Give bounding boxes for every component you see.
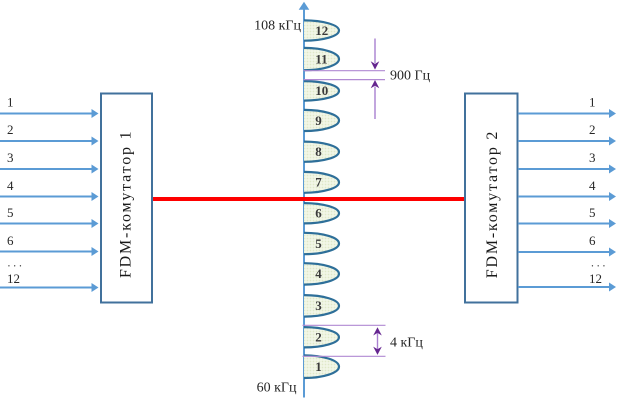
- svg-text:11: 11: [315, 51, 327, 66]
- svg-text:2: 2: [7, 122, 14, 137]
- svg-text:. . .: . . .: [591, 258, 606, 270]
- output arrow 3: [518, 165, 616, 174]
- channel spectrum 9: [304, 110, 339, 131]
- channel spectrum 2: [304, 327, 339, 347]
- FDM commutator 2 box: [465, 94, 518, 303]
- input arrow 4: [0, 192, 99, 201]
- svg-text:4 кГц: 4 кГц: [390, 336, 423, 351]
- red carrier line: [153, 197, 464, 201]
- svg-text:1: 1: [589, 95, 596, 110]
- input arrow 2: [0, 137, 99, 146]
- svg-text:2: 2: [589, 122, 596, 137]
- output arrow 4: [518, 192, 616, 201]
- output arrow 1: [518, 109, 616, 118]
- input arrow 12: [0, 283, 99, 292]
- input arrow 5: [0, 219, 99, 228]
- channel spectrum 3: [304, 295, 339, 317]
- svg-text:6: 6: [7, 233, 14, 248]
- channel spectrum 10: [304, 81, 339, 101]
- svg-text:FDM-комутатор 2: FDM-комутатор 2: [484, 130, 501, 278]
- input arrow 3: [0, 165, 99, 174]
- channel spectrum 7: [304, 172, 339, 193]
- output arrow 12: [518, 283, 616, 292]
- svg-text:7: 7: [315, 175, 322, 190]
- channel spacing dimension arrow: [373, 327, 382, 355]
- channel spectrum 5: [304, 233, 339, 254]
- svg-text:. . .: . . .: [8, 258, 23, 270]
- svg-text:12: 12: [315, 23, 328, 38]
- channel spectrum 1: [304, 355, 339, 378]
- svg-text:1: 1: [315, 359, 322, 374]
- frequency axis: [299, 2, 310, 398]
- output arrow 2: [518, 137, 616, 146]
- svg-text:3: 3: [589, 150, 596, 165]
- channel spectrum 8: [304, 142, 339, 162]
- channel spacing upper line: [303, 324, 386, 326]
- svg-text:4: 4: [7, 178, 14, 193]
- svg-text:5: 5: [589, 205, 596, 220]
- svg-text:4: 4: [315, 266, 322, 281]
- svg-text:10: 10: [315, 83, 328, 98]
- svg-text:108 кГц: 108 кГц: [254, 19, 301, 34]
- svg-text:1: 1: [7, 95, 14, 110]
- channel spectrum 12: [304, 20, 339, 40]
- svg-text:900 Гц: 900 Гц: [390, 69, 431, 84]
- svg-text:4: 4: [589, 178, 596, 193]
- svg-text:5: 5: [315, 236, 322, 251]
- svg-text:2: 2: [315, 330, 322, 345]
- channel spectrum 6: [304, 203, 339, 223]
- input arrow 6: [0, 247, 99, 256]
- channel spacing lower line: [303, 355, 386, 357]
- guard band lower line: [304, 79, 386, 81]
- svg-text:12: 12: [589, 271, 602, 286]
- output arrow 5: [518, 219, 616, 228]
- channel spectrum 11: [304, 48, 339, 70]
- output arrow 6: [518, 248, 616, 257]
- channel spectrum 4: [304, 263, 339, 284]
- svg-text:FDM-комутатор 1: FDM-комутатор 1: [118, 130, 135, 278]
- svg-text:6: 6: [589, 233, 596, 248]
- svg-text:5: 5: [7, 205, 14, 220]
- svg-text:60 кГц: 60 кГц: [257, 381, 297, 396]
- FDM commutator 1 box: [101, 94, 152, 303]
- svg-text:9: 9: [315, 113, 322, 128]
- guard band dimension arrows: [371, 39, 380, 120]
- svg-text:8: 8: [315, 144, 322, 159]
- svg-text:3: 3: [7, 150, 14, 165]
- svg-text:6: 6: [315, 206, 322, 221]
- guard band upper line: [304, 70, 386, 72]
- input arrow 1: [0, 109, 99, 118]
- svg-text:12: 12: [7, 271, 20, 286]
- svg-text:3: 3: [315, 298, 322, 313]
